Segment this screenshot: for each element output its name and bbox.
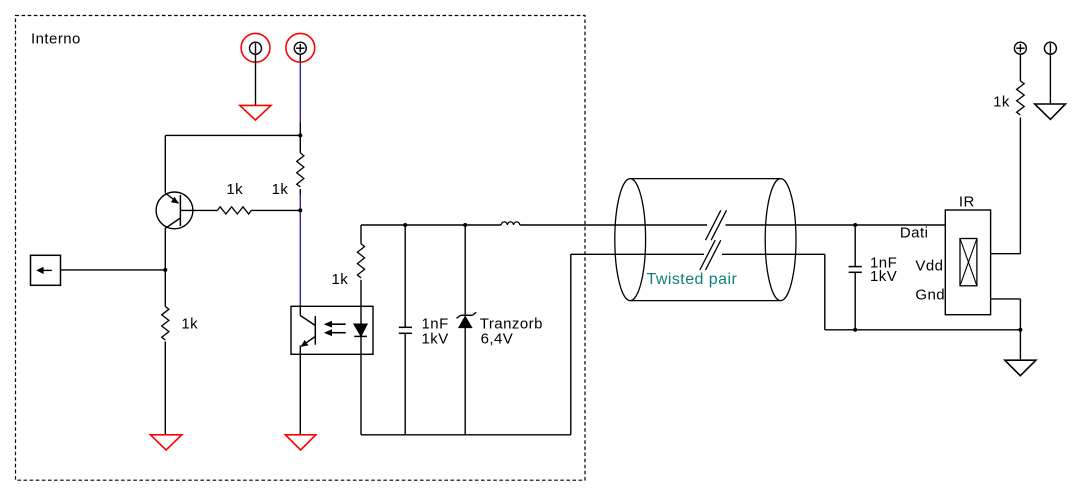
svg-text:1k: 1k <box>226 181 243 198</box>
wire optocoupler emitter to ground <box>299 354 301 435</box>
capacitor C2 plates <box>849 267 862 273</box>
resistor R2 1k (horizontal, base) <box>217 207 251 214</box>
node E junction dot (C2 top) <box>853 223 857 227</box>
wire blue net node B to optocoupler <box>299 195 301 307</box>
svg-text:1kV: 1kV <box>870 268 897 285</box>
svg-text:6,4V: 6,4V <box>481 331 514 348</box>
wire J2 pin (black) <box>299 54 301 61</box>
cable twisted pair cylinder <box>615 179 796 301</box>
wire R1 bottom lead <box>299 189 301 195</box>
transistor Q1 (PNP) <box>156 192 217 229</box>
zener D1 top lead <box>464 225 466 315</box>
capacitor C1 plates <box>399 327 412 333</box>
wire R2 to node B <box>251 209 300 211</box>
bottom rail wire <box>361 434 571 436</box>
wire blue net from J2 <box>299 61 301 123</box>
wire Gnd down to rail <box>1019 299 1021 330</box>
zener D1 (tranzorb) <box>457 312 477 327</box>
wire lower pair down to gnd rail <box>824 254 826 329</box>
ground symbol (red) under optocoupler <box>285 435 316 450</box>
svg-text:1k: 1k <box>272 181 289 198</box>
power symbol (black open triangle) under J4 <box>1035 104 1066 119</box>
wire Vdd pin to vertical <box>991 253 1021 255</box>
power symbol (red open triangle) under J1 <box>240 105 271 120</box>
ground symbol (red) under R3 <box>150 435 181 450</box>
wire break to node D <box>726 224 946 226</box>
node B junction dot <box>298 208 302 212</box>
node C junction dot <box>163 268 167 272</box>
optocoupler light arrows <box>324 321 346 336</box>
inductor L1 <box>501 222 520 225</box>
wire lower pair (left of break) <box>571 253 704 255</box>
resistor R1 1k (vertical) <box>297 153 304 187</box>
wire J1 to power symbol <box>255 54 257 105</box>
resistor R4 1k (vertical) <box>357 244 364 278</box>
wire down to transistor <box>164 135 166 192</box>
wire lower pair (right of break) <box>722 253 825 255</box>
wire Gnd pin <box>991 298 1021 300</box>
optocoupler U1 box <box>291 306 373 354</box>
wire J4 to power symbol <box>1049 54 1051 104</box>
wire right vertical to lower pair <box>570 254 572 434</box>
wire R5 to connector J3 <box>1019 54 1021 81</box>
IR receiver U2 box <box>945 210 990 315</box>
svg-text:1k: 1k <box>332 271 349 288</box>
connector J4 (minus terminal) <box>1044 42 1056 54</box>
svg-text:1k: 1k <box>993 93 1010 110</box>
wire vertical Vdd up to resistor R5 <box>1019 118 1021 254</box>
capacitor C2 bottom lead <box>854 272 856 330</box>
IR crossed element <box>960 239 977 286</box>
connector J3 (plus terminal) <box>1014 42 1026 54</box>
capacitor C1 top lead <box>404 225 406 327</box>
connector J1 (minus terminal, red ring) <box>241 33 270 62</box>
wire to node A <box>299 123 301 153</box>
wire node C to resistor R3 <box>164 270 166 307</box>
connector J2 (plus terminal, red ring) <box>286 33 315 62</box>
ground symbol (black open triangle) bottom right <box>1005 360 1036 376</box>
svg-text:Interno: Interno <box>31 31 81 48</box>
node D1 junction dot (cap C1 tap) <box>403 223 407 227</box>
capacitor C2 top lead <box>854 225 856 267</box>
svg-text:Gnd: Gnd <box>915 286 945 303</box>
zener D1 bottom lead <box>464 328 466 435</box>
gnd rail wire right section <box>825 329 1021 331</box>
dashed enclosure box "Interno" <box>16 16 586 481</box>
wire transistor emitter down <box>164 228 166 270</box>
svg-text:1kV: 1kV <box>422 330 449 347</box>
capacitor C1 bottom lead <box>404 333 406 435</box>
resistor R5 1k (vertical) <box>1017 81 1025 115</box>
optocoupler phototransistor <box>300 306 315 354</box>
wire inductor to break <box>520 224 707 226</box>
wire R3 to ground <box>164 342 166 435</box>
wire top corner to resistor R4 <box>360 225 362 244</box>
break marks top wire <box>706 210 727 240</box>
wire top line (data, left of inductor) <box>361 224 501 226</box>
node D2 junction dot (zener tap) <box>463 223 467 227</box>
svg-text:1k: 1k <box>181 316 198 333</box>
break marks lower wire <box>700 240 721 270</box>
wire to input box <box>61 269 166 271</box>
svg-text:Twisted pair: Twisted pair <box>647 271 738 288</box>
svg-text:IR: IR <box>959 194 975 211</box>
optocoupler LED <box>354 306 367 354</box>
node F junction dot (C2 bottom) <box>853 328 857 332</box>
node A junction dot <box>298 133 302 137</box>
node G junction dot <box>1018 328 1022 332</box>
resistor R3 1k (vertical) <box>162 307 169 341</box>
svg-text:Dati: Dati <box>900 225 928 242</box>
input port box with arrow <box>31 255 61 285</box>
svg-text:Vdd: Vdd <box>915 257 943 274</box>
wire LED cathode to bottom rail <box>360 354 362 435</box>
wire node G to ground symbol <box>1019 330 1021 360</box>
wire R4 to LED anode <box>360 280 362 307</box>
wire node A to transistor collector top <box>165 134 300 136</box>
